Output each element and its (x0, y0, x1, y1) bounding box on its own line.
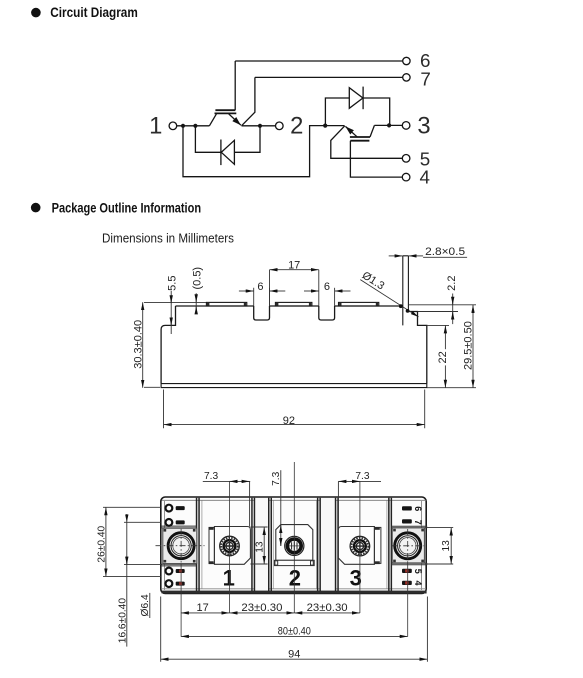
wire: node C down to diode D1 anode (234, 126, 260, 153)
dimension 92 (body width) (164, 424, 425, 426)
svg-text:7.3: 7.3 (204, 471, 218, 482)
transistor Q2 body bar (350, 136, 370, 138)
svg-text:23±0.30: 23±0.30 (307, 602, 348, 614)
top view: left mounting hole square (163, 528, 197, 563)
top view: partition wall C (269, 498, 272, 591)
side view: baseplate (161, 384, 427, 388)
wire: node D up and over to diode D2 anode (325, 98, 349, 126)
dimension 22 (body height) (444, 325, 446, 387)
side view: left step and mounting flange (161, 306, 175, 383)
svg-text:17: 17 (288, 259, 300, 271)
top view: right block divider lower (391, 563, 427, 565)
top view: narrow strip between section 2 and 3 (320, 498, 335, 591)
svg-text:1: 1 (149, 113, 162, 140)
svg-text:13: 13 (441, 540, 452, 552)
diode D1 cathode bar (220, 140, 222, 166)
terminal 5 circle (402, 155, 410, 163)
side view: upright tab terminal (2.8 x 0.5) (403, 256, 409, 326)
dimension 80±0.40 (hole centers) (181, 635, 408, 637)
dimension 13 (pad 1 height) (263, 527, 265, 564)
svg-text:6: 6 (413, 506, 423, 511)
side view: slot 1 (254, 306, 270, 320)
top view: partition wall A (197, 498, 200, 591)
top view: partition wall F (389, 498, 392, 591)
side view: slot 2 (319, 306, 335, 320)
dimension (0.5) lead plate thickness (195, 293, 197, 312)
terminal 7 circle (403, 74, 410, 81)
svg-text:7: 7 (413, 520, 423, 525)
svg-text:Circuit Diagram: Circuit Diagram (50, 5, 138, 20)
terminal 2 circle (276, 122, 284, 130)
svg-text:3: 3 (417, 113, 430, 140)
top view: partition wall E (336, 498, 339, 591)
side view: right pin seat, step, flange and right wall (408, 312, 426, 384)
diode D1 triangle (221, 140, 234, 164)
dimension 6 (slot 1 width) (239, 290, 254, 292)
top view: inner top edge line (165, 501, 422, 590)
top view: right mounting hole square (392, 528, 424, 563)
label Ø6.4 (mounting hole diameter) (149, 593, 151, 618)
section header bullet: Circuit Diagram (31, 8, 41, 18)
top view: right square corner marks (393, 529, 396, 532)
svg-text:13: 13 (254, 541, 265, 553)
side view: case top surface with two slots (176, 305, 403, 307)
svg-text:7: 7 (420, 68, 430, 89)
svg-text:5: 5 (413, 569, 423, 574)
node C junction dot (diode D1 anode branch) (258, 124, 262, 128)
svg-text:26±0.40: 26±0.40 (96, 525, 107, 562)
top view: partition wall D (318, 498, 321, 591)
wire: Q2 auxiliary emitter to terminal 5 (331, 126, 403, 158)
top view: section inner mold lines (202, 501, 387, 589)
terminal 4 circle (402, 173, 410, 181)
center line right mounting hole (407, 563, 409, 637)
side view: flat lead plate P1 (206, 302, 246, 306)
wire: bottom rail from node A to right half collector node (183, 126, 345, 177)
svg-text:(0.5): (0.5) (191, 267, 203, 290)
svg-text:4: 4 (413, 580, 423, 585)
svg-text:94: 94 (288, 649, 300, 661)
diode D2 cathode bar (362, 87, 364, 110)
side view: flat lead plate P2 (275, 302, 312, 306)
svg-text:6: 6 (324, 281, 330, 293)
svg-text:Dimensions in Millimeters: Dimensions in Millimeters (102, 231, 234, 246)
svg-text:17: 17 (196, 602, 208, 614)
svg-text:2: 2 (289, 565, 301, 590)
svg-text:7.3: 7.3 (355, 471, 369, 482)
top view: terminal pad 2 bottom strip (274, 560, 314, 565)
transistor Q1 gate lead to terminal 6 line (234, 61, 236, 110)
dimension 5.5 (flange depth) (170, 291, 172, 334)
wire: terminal 1 to IGBT Q1 collector (177, 125, 210, 127)
top view: right block pins 6 and 7 (402, 506, 412, 510)
svg-text:30.3±0.40: 30.3±0.40 (132, 320, 144, 369)
transistor Q2 gate bar (350, 140, 369, 142)
terminal 6 circle (403, 57, 410, 64)
transistor Q2 gate lead to terminal 4 (350, 141, 402, 177)
top view: terminal pad 1 left bar (209, 527, 214, 563)
wire: node E to terminal 3 (374, 124, 402, 126)
dimension 6 (slot 2 width) (304, 290, 319, 292)
section header bullet: Package Outline Information (31, 203, 41, 213)
node A junction dot (rail branch) (181, 124, 185, 128)
top view: terminal 1 screw (220, 536, 240, 556)
top view: left mounting hole (156, 529, 205, 563)
top view: module body outline (161, 497, 426, 594)
top view: partition wall B (252, 498, 255, 591)
svg-text:4: 4 (419, 166, 429, 187)
svg-text:2.8×0.5: 2.8×0.5 (425, 246, 465, 258)
svg-text:Ø6.4: Ø6.4 (140, 594, 151, 616)
dimension 26±0.40 (left pin rows) (105, 507, 107, 576)
wire: Q1 auxiliary emitter diagonal to terminal 7 line (242, 77, 255, 125)
node E junction dot (387, 123, 391, 127)
top view: terminal pad 3 right bar (374, 527, 381, 563)
transistor Q2 (IGBT) emitter arrow pointing to node (345, 126, 357, 137)
node B junction dot (diode D1 branch) (193, 124, 197, 128)
svg-text:16.6±0.40: 16.6±0.40 (117, 598, 128, 644)
dimension 13 (right block middle height) (450, 528, 452, 564)
dimension 17 (between slots) (270, 269, 319, 271)
terminal 1 circle (169, 122, 177, 130)
svg-text:2: 2 (290, 112, 303, 139)
wire: gate Q1 to terminal 6 (235, 60, 403, 62)
dimension 17 (hole center to terminal 1) (181, 612, 230, 614)
diode D2 triangle (349, 88, 363, 109)
top view: right block divider upper (391, 526, 427, 527)
wire: diode D2 cathode to node E (363, 98, 390, 125)
svg-text:29.5±0.50: 29.5±0.50 (463, 321, 475, 370)
node D junction dot (diode D2 branch) (323, 124, 327, 128)
svg-text:92: 92 (283, 415, 295, 427)
top view: left block pin rows (166, 505, 185, 512)
transistor Q1 emitter arrow (229, 114, 241, 125)
dimension 23±0.30 (terminal 1 to 2) (230, 612, 295, 614)
center line terminal 1 (229, 481, 231, 613)
svg-text:23±0.30: 23±0.30 (241, 602, 282, 614)
dimension 30.3±0.40 (left height) (142, 302, 144, 388)
dimension 94 (overall width) (161, 658, 428, 660)
top view: left block divider upper (161, 526, 197, 528)
terminal 3 circle (402, 122, 410, 130)
transistor Q1 (IGBT) collector diagonal (209, 114, 216, 126)
wire: Q1 emitter node to terminal 2 (242, 125, 276, 127)
top view: inner bottom edge line (162, 588, 426, 590)
dimension 29.5±0.50 (overall height) (472, 305, 474, 388)
dimension 16.6±0.40 (126, 522, 128, 646)
center line terminal 3 (359, 481, 361, 613)
top view: left square corner marks (164, 529, 167, 532)
side view: flat lead plate P3 (339, 302, 379, 306)
leader and label Ø1.3 (hole in tab) (360, 280, 418, 317)
top view: terminal 2 screw (285, 536, 304, 555)
wire: node B down to diode D1 cathode (195, 126, 221, 153)
wire: aux emitter Q1 to terminal 7 (255, 76, 403, 78)
top view: terminal pad 2 (276, 525, 313, 561)
svg-text:6: 6 (257, 281, 263, 293)
svg-text:5.5: 5.5 (166, 276, 178, 291)
transistor Q1 body bar (215, 112, 237, 114)
top view: terminal 3 screw (350, 536, 370, 556)
svg-text:Package Outline Information: Package Outline Information (52, 200, 202, 215)
top view: terminal pad 3 (338, 527, 374, 565)
svg-text:1: 1 (223, 565, 235, 590)
top view: right mounting hole (391, 529, 424, 563)
top view: terminal pad 1 (214, 527, 250, 565)
center line terminal 2 (293, 462, 295, 613)
center line left mounting hole (180, 564, 182, 637)
svg-text:80±0.40: 80±0.40 (278, 625, 311, 637)
top view: narrow strip between section 1 and 2 (254, 498, 268, 591)
dimension 23±0.30 (terminal 2 to 3) (294, 612, 360, 614)
transistor Q1 gate bar (215, 109, 235, 111)
top view: bottom edge band (162, 591, 427, 594)
top view: right block pins 5 and 4 (red marked) (402, 569, 412, 573)
svg-text:22: 22 (437, 351, 449, 363)
svg-text:2.2: 2.2 (446, 276, 458, 291)
top view: left block divider lower (161, 564, 197, 566)
transistor Q2 collector diagonal to node E (370, 125, 374, 137)
dimension 2.2 (seat step height) (452, 294, 454, 325)
